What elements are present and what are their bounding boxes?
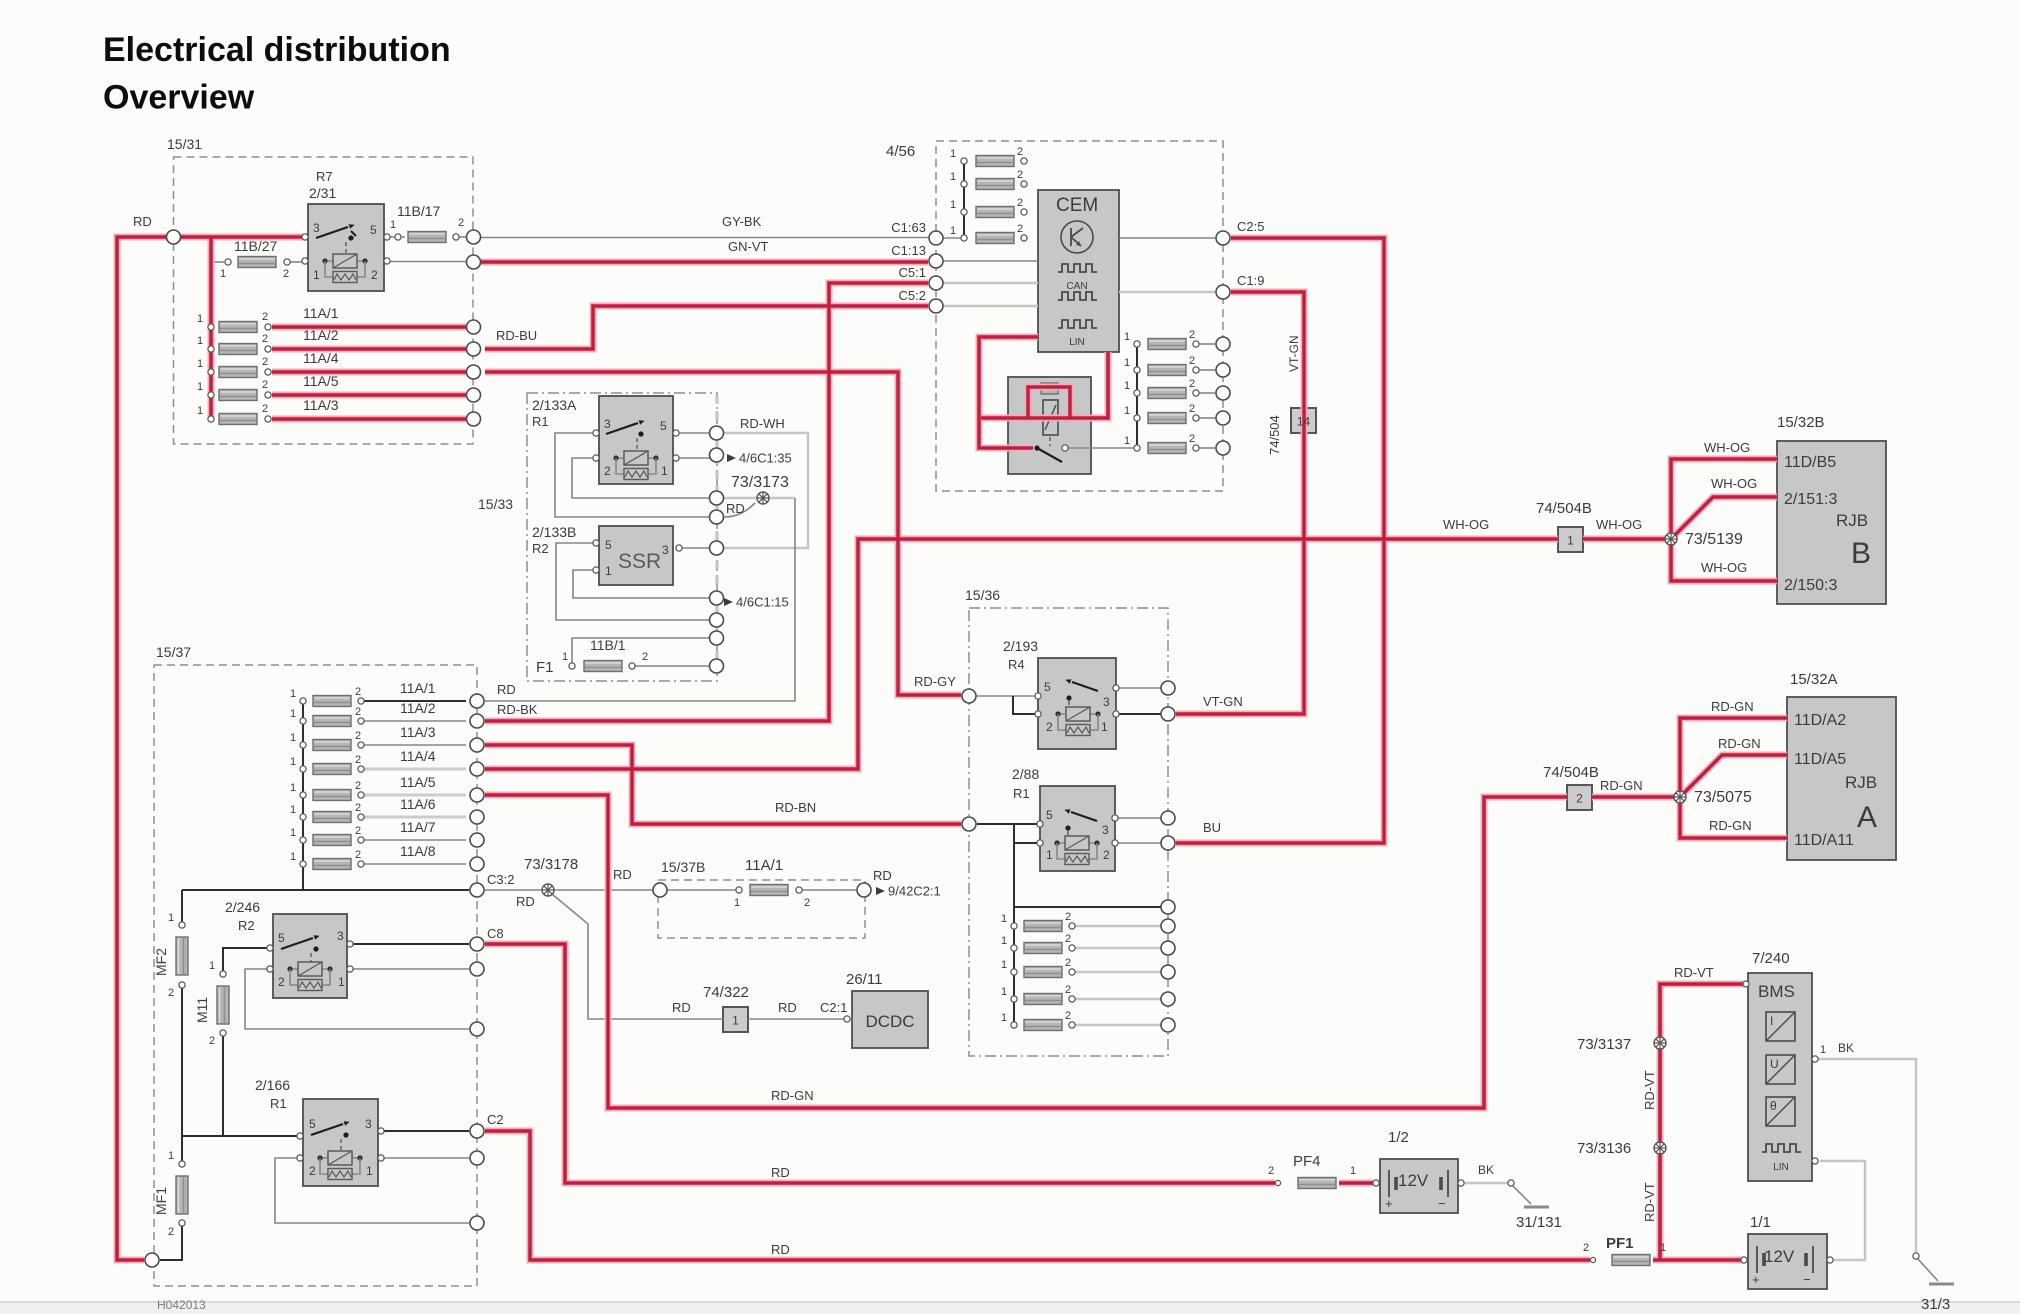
svg-text:VT-GN: VT-GN [1287,335,1301,372]
svg-text:73/5139: 73/5139 [1685,531,1743,548]
svg-text:2: 2 [355,706,361,718]
svg-text:1: 1 [338,975,345,989]
svg-text:12V: 12V [1764,1247,1795,1266]
svg-text:3: 3 [313,221,320,235]
svg-text:I: I [1770,1014,1773,1028]
svg-text:11A/8: 11A/8 [400,843,436,859]
svg-text:2: 2 [168,1226,174,1238]
svg-text:RD-GY: RD-GY [914,674,956,689]
svg-text:11D/A5: 11D/A5 [1794,751,1846,768]
svg-text:SSR: SSR [618,550,661,573]
svg-text:73/3178: 73/3178 [524,856,578,873]
svg-text:1: 1 [290,732,296,744]
svg-text:1: 1 [197,358,203,370]
svg-text:11A/6: 11A/6 [400,796,436,812]
svg-text:1: 1 [1001,1012,1007,1024]
svg-text:LIN: LIN [1773,1162,1789,1173]
svg-text:15/31: 15/31 [167,136,202,152]
svg-text:11A/3: 11A/3 [400,724,436,740]
svg-text:2: 2 [1065,984,1071,996]
svg-text:θ: θ [1770,1099,1777,1113]
svg-text:2: 2 [262,379,268,391]
svg-text:2/246: 2/246 [225,899,260,915]
svg-text:DCDC: DCDC [865,1012,914,1031]
svg-text:C8: C8 [487,926,504,941]
svg-text:11D/A11: 11D/A11 [1794,832,1854,849]
svg-text:11D/A2: 11D/A2 [1794,712,1846,729]
svg-text:2: 2 [355,754,361,766]
svg-text:73/3136: 73/3136 [1577,1140,1631,1157]
svg-text:73/5075: 73/5075 [1694,789,1752,806]
svg-text:1: 1 [1001,959,1007,971]
svg-text:7/240: 7/240 [1752,950,1790,967]
svg-text:1: 1 [290,756,296,768]
svg-text:1: 1 [168,1150,174,1162]
svg-text:C1:13: C1:13 [891,243,926,258]
svg-text:1: 1 [732,1014,739,1028]
svg-text:2: 2 [1017,169,1023,181]
svg-text:RD-VT: RD-VT [1674,965,1714,980]
svg-text:2: 2 [355,686,361,698]
svg-text:2/31: 2/31 [309,185,336,201]
svg-text:1: 1 [366,1164,373,1178]
svg-text:2: 2 [1046,720,1053,734]
svg-text:11B/1: 11B/1 [590,637,626,653]
svg-text:11A/7: 11A/7 [400,819,436,835]
svg-text:R2: R2 [532,541,549,556]
svg-text:RD: RD [771,1165,790,1180]
svg-text:11A/2: 11A/2 [303,327,339,343]
svg-text:1: 1 [220,268,226,280]
svg-text:RD-GN: RD-GN [1711,699,1754,714]
svg-text:1: 1 [197,381,203,393]
svg-text:15/33: 15/33 [478,496,513,512]
svg-text:15/36: 15/36 [965,587,1000,603]
svg-text:PF4: PF4 [1293,1153,1321,1170]
svg-text:RD: RD [133,214,152,229]
svg-text:+: + [1752,1272,1760,1287]
svg-text:9/42C2:1: 9/42C2:1 [888,884,941,899]
svg-text:B: B [1851,537,1871,570]
svg-text:4/6C1:15: 4/6C1:15 [736,595,789,610]
svg-text:−: − [1803,1272,1811,1287]
svg-text:2: 2 [1189,378,1195,390]
svg-text:BU: BU [1203,820,1221,835]
svg-text:1: 1 [1001,935,1007,947]
svg-text:1: 1 [290,851,296,863]
svg-text:2: 2 [262,333,268,345]
svg-text:2: 2 [1189,433,1195,445]
svg-text:GN-VT: GN-VT [728,239,769,254]
svg-text:2: 2 [1189,355,1195,367]
svg-text:2: 2 [458,217,464,229]
svg-text:2: 2 [355,730,361,742]
svg-text:26/11: 26/11 [846,971,882,988]
svg-text:3: 3 [337,929,344,943]
svg-text:74/504B: 74/504B [1536,500,1592,517]
svg-text:2: 2 [283,268,289,280]
svg-text:WH-OG: WH-OG [1704,440,1750,455]
svg-text:11A/4: 11A/4 [400,748,436,764]
svg-text:RD-VT: RD-VT [1642,1070,1657,1110]
svg-text:RD-GN: RD-GN [1718,736,1761,751]
svg-text:4/56: 4/56 [886,143,915,160]
svg-text:RD: RD [672,1000,691,1015]
svg-text:2: 2 [262,356,268,368]
svg-text:11A/5: 11A/5 [303,373,339,389]
svg-text:2: 2 [262,311,268,323]
svg-text:RD: RD [771,1242,790,1257]
svg-text:11A/5: 11A/5 [400,774,436,790]
svg-text:11A/4: 11A/4 [303,350,339,366]
svg-text:2: 2 [604,464,611,478]
svg-text:74/504: 74/504 [1267,415,1282,455]
svg-text:1: 1 [197,405,203,417]
svg-text:2/133B: 2/133B [532,524,576,540]
svg-text:1: 1 [209,960,215,972]
svg-text:1: 1 [1660,1242,1666,1254]
svg-text:11D/B5: 11D/B5 [1784,454,1836,471]
svg-text:2: 2 [1103,848,1110,862]
svg-text:5: 5 [1044,680,1051,694]
svg-text:A: A [1857,801,1877,834]
svg-text:14: 14 [1297,415,1311,429]
svg-text:1: 1 [168,912,174,924]
svg-text:2: 2 [355,780,361,792]
svg-text:1: 1 [950,148,956,160]
svg-text:MF1: MF1 [153,1187,169,1215]
svg-text:U: U [1770,1057,1779,1071]
svg-text:H042013: H042013 [157,1298,206,1312]
svg-text:1: 1 [1124,357,1130,369]
svg-text:C2:1: C2:1 [820,1000,847,1015]
svg-text:11A/1: 11A/1 [303,305,339,321]
svg-text:C5:2: C5:2 [899,288,926,303]
svg-text:15/37B: 15/37B [661,859,705,875]
svg-text:3: 3 [1102,823,1109,837]
svg-text:R1: R1 [1013,786,1030,801]
svg-text:5: 5 [605,538,612,552]
svg-text:2: 2 [309,1164,316,1178]
svg-text:15/32B: 15/32B [1777,414,1825,431]
svg-text:11B/27: 11B/27 [234,238,278,254]
svg-text:BK: BK [1838,1041,1854,1055]
svg-text:2/151:3: 2/151:3 [1784,491,1837,508]
svg-text:R7: R7 [316,169,333,184]
svg-text:WH-OG: WH-OG [1596,517,1642,532]
svg-text:2: 2 [1065,911,1071,923]
svg-text:2: 2 [355,849,361,861]
svg-text:RD-GN: RD-GN [771,1088,814,1103]
svg-text:C2: C2 [487,1112,504,1127]
svg-text:2: 2 [1189,329,1195,341]
svg-text:2: 2 [1576,792,1583,806]
svg-text:GY-BK: GY-BK [722,214,762,229]
svg-text:BMS: BMS [1758,982,1795,1001]
svg-text:3: 3 [604,417,611,431]
svg-text:73/3173: 73/3173 [731,474,789,491]
svg-text:RD: RD [613,867,632,882]
svg-text:PF1: PF1 [1606,1235,1634,1252]
svg-text:R1: R1 [270,1096,287,1111]
svg-text:R2: R2 [238,918,255,933]
svg-text:1: 1 [1001,986,1007,998]
svg-text:2: 2 [355,825,361,837]
svg-text:11A/3: 11A/3 [303,397,339,413]
svg-text:31/131: 31/131 [1516,1214,1562,1231]
svg-text:2: 2 [1017,223,1023,235]
svg-text:RD-WH: RD-WH [740,416,785,431]
svg-text:CAN: CAN [1066,281,1087,292]
svg-text:2: 2 [371,268,378,282]
svg-text:RD: RD [497,682,516,697]
svg-text:1: 1 [1124,380,1130,392]
svg-text:11B/17: 11B/17 [397,203,441,219]
svg-text:RJB: RJB [1845,773,1877,792]
svg-text:2: 2 [1268,1165,1274,1177]
svg-text:RJB: RJB [1836,511,1868,530]
svg-text:1: 1 [950,171,956,183]
svg-text:C2:5: C2:5 [1237,219,1264,234]
svg-text:R1: R1 [532,414,549,429]
svg-text:31/3: 31/3 [1921,1296,1950,1313]
svg-text:5: 5 [278,931,285,945]
svg-text:1: 1 [1046,848,1053,862]
svg-text:RD-GN: RD-GN [1709,818,1752,833]
svg-text:12V: 12V [1398,1171,1429,1190]
svg-text:2: 2 [1017,197,1023,209]
svg-text:2/133A: 2/133A [532,397,577,413]
svg-text:2: 2 [1017,146,1023,158]
svg-text:WH-OG: WH-OG [1711,476,1757,491]
svg-text:C5:1: C5:1 [899,265,926,280]
svg-text:LIN: LIN [1069,337,1085,348]
svg-text:5: 5 [370,223,377,237]
svg-text:1: 1 [1124,435,1130,447]
svg-text:4/6C1:35: 4/6C1:35 [739,451,792,466]
svg-text:11A/1: 11A/1 [400,680,436,696]
svg-text:3: 3 [1103,695,1110,709]
svg-text:C3:2: C3:2 [487,872,514,887]
svg-text:1/1: 1/1 [1750,1214,1771,1231]
svg-text:RD: RD [726,501,745,516]
svg-text:5: 5 [309,1117,316,1131]
svg-text:2: 2 [209,1035,215,1047]
svg-text:RD-BN: RD-BN [775,800,816,815]
svg-text:2: 2 [262,403,268,415]
svg-text:11A/1: 11A/1 [745,857,783,874]
svg-text:RD-GN: RD-GN [1600,778,1643,793]
svg-text:2/166: 2/166 [255,1077,290,1093]
svg-text:1: 1 [661,464,668,478]
svg-text:11A/2: 11A/2 [400,700,436,716]
svg-text:R4: R4 [1008,657,1025,672]
svg-text:Electrical distribution: Electrical distribution [103,31,451,69]
svg-text:1: 1 [605,564,612,578]
svg-text:2/193: 2/193 [1003,638,1038,654]
svg-text:1: 1 [197,335,203,347]
svg-text:RD-BK: RD-BK [497,702,538,717]
svg-text:1: 1 [1001,913,1007,925]
svg-text:1: 1 [562,651,568,663]
svg-text:1: 1 [734,897,740,909]
svg-text:3: 3 [365,1117,372,1131]
svg-text:CEM: CEM [1056,195,1098,216]
svg-text:1: 1 [950,225,956,237]
svg-text:1: 1 [1820,1044,1826,1056]
svg-text:74/322: 74/322 [703,984,749,1001]
svg-text:2: 2 [278,975,285,989]
svg-text:1: 1 [290,804,296,816]
svg-text:WH-OG: WH-OG [1701,560,1747,575]
svg-text:F1: F1 [536,659,554,676]
svg-text:VT-GN: VT-GN [1203,694,1243,709]
svg-text:1: 1 [290,688,296,700]
svg-text:RD: RD [873,868,892,883]
svg-text:−: − [1438,1196,1446,1211]
svg-text:2: 2 [1583,1242,1589,1254]
svg-text:2: 2 [642,651,648,663]
svg-text:WH-OG: WH-OG [1443,517,1489,532]
svg-text:RD: RD [516,894,535,909]
svg-text:1: 1 [1567,534,1574,548]
svg-text:C1:9: C1:9 [1237,273,1264,288]
svg-text:1: 1 [290,782,296,794]
svg-text:1: 1 [1350,1165,1356,1177]
svg-text:+: + [1385,1196,1393,1211]
svg-text:2: 2 [1065,1010,1071,1022]
svg-text:1: 1 [290,827,296,839]
svg-text:1: 1 [1101,720,1108,734]
svg-text:15/32A: 15/32A [1790,671,1838,688]
svg-text:MF2: MF2 [153,948,169,976]
svg-text:2: 2 [1065,933,1071,945]
svg-text:BK: BK [1478,1163,1494,1177]
svg-text:73/3137: 73/3137 [1577,1036,1631,1053]
svg-text:5: 5 [660,419,667,433]
svg-text:RD: RD [778,1000,797,1015]
svg-text:74/504B: 74/504B [1543,764,1599,781]
svg-text:2: 2 [1065,957,1071,969]
svg-text:1: 1 [197,313,203,325]
svg-text:2: 2 [804,897,810,909]
svg-text:RD-BU: RD-BU [496,328,537,343]
svg-text:1: 1 [290,708,296,720]
svg-text:2/150:3: 2/150:3 [1784,577,1837,594]
svg-text:1: 1 [313,268,320,282]
svg-text:1: 1 [1124,331,1130,343]
svg-text:15/37: 15/37 [156,644,191,660]
svg-text:C1:63: C1:63 [891,220,926,235]
svg-text:2: 2 [1189,403,1195,415]
svg-text:5: 5 [1046,808,1053,822]
svg-text:2: 2 [355,802,361,814]
svg-text:2: 2 [168,987,174,999]
svg-text:RD-VT: RD-VT [1642,1182,1657,1222]
svg-text:2/88: 2/88 [1012,766,1039,782]
svg-text:1: 1 [390,219,396,231]
svg-text:1: 1 [1124,405,1130,417]
svg-text:1/2: 1/2 [1388,1129,1409,1146]
svg-text:1: 1 [950,199,956,211]
svg-text:Overview: Overview [103,79,255,117]
svg-text:M11: M11 [194,997,210,1023]
svg-text:3: 3 [662,543,669,557]
